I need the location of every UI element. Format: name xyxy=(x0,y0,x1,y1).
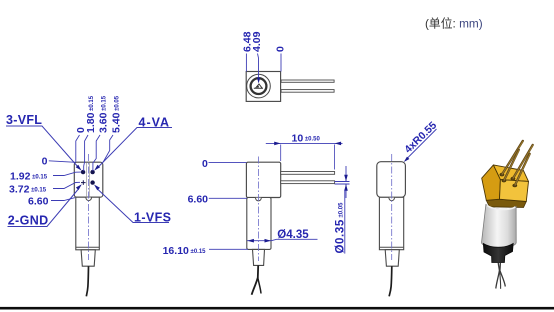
svg-text:1.92 ±0.15: 1.92 ±0.15 xyxy=(10,171,48,183)
arrowhead D0.35 up xyxy=(344,184,348,191)
pin hole B xyxy=(511,177,516,181)
leader 4.09 xyxy=(258,54,259,80)
wire side view (forked) xyxy=(252,265,259,294)
chip mark xyxy=(254,84,263,88)
bottom wires xyxy=(496,263,500,289)
pin top view upper xyxy=(281,80,334,82)
window dark ring xyxy=(251,78,267,94)
gold pin A xyxy=(502,141,523,175)
arrowhead 10 left xyxy=(274,142,281,146)
leader 2-GND xyxy=(8,190,79,227)
wire right view xyxy=(389,266,392,296)
pin dot 3 (top-left) xyxy=(81,170,85,174)
band line front view xyxy=(76,246,99,248)
pin hole D xyxy=(512,184,517,188)
leader 0 side xyxy=(209,161,247,163)
svg-text:10 ±0.50: 10 ±0.50 xyxy=(292,133,321,145)
bump notch right view xyxy=(389,198,395,201)
leader 3-VFL xyxy=(6,126,79,168)
arrowhead 3-VFL xyxy=(76,165,82,171)
pin side view upper xyxy=(281,172,335,175)
leader 1.92 xyxy=(53,172,81,175)
arrowhead 4-VA xyxy=(94,165,100,171)
inner silhouette lines front head xyxy=(87,163,90,197)
arrowhead 2-GND xyxy=(76,184,82,190)
dimension line D4.35 xyxy=(247,240,271,242)
shelf D4.35 xyxy=(271,239,317,240)
svg-text:4xR0.55: 4xR0.55 xyxy=(402,119,439,155)
band line right view xyxy=(380,246,404,248)
leader 1-VFS xyxy=(98,190,169,223)
centerline right view xyxy=(391,154,393,260)
bump notch front view xyxy=(86,198,92,201)
pin hole A xyxy=(500,173,505,177)
body right view xyxy=(379,197,403,249)
leader 6.60 side xyxy=(209,197,247,199)
arrowhead D4.35 left xyxy=(247,239,254,243)
cylinder top highlight xyxy=(487,205,515,209)
leader 0 top xyxy=(76,135,80,162)
svg-text:3.72 ±0.15: 3.72 ±0.15 xyxy=(9,184,47,196)
cube left face xyxy=(482,165,501,200)
svg-text:3-VFL: 3-VFL xyxy=(6,113,42,127)
step tip right view xyxy=(385,250,399,267)
leader 6.48 xyxy=(245,54,247,72)
body side view xyxy=(247,198,271,250)
extension ticks D0.35 xyxy=(335,182,350,185)
black section xyxy=(483,244,513,263)
arrowhead D0.35 down xyxy=(344,175,348,182)
svg-text:0: 0 xyxy=(202,158,208,170)
svg-text:6.60: 6.60 xyxy=(28,196,49,208)
svg-text:(单位: mm): (单位: mm) xyxy=(425,17,483,31)
gold pin D xyxy=(515,154,530,186)
body cylinder front view xyxy=(76,197,100,250)
leader 16.10 xyxy=(209,248,248,250)
dimension line D0.35 lower xyxy=(345,184,347,198)
arrowhead 4xR0.55 xyxy=(404,157,410,162)
bump notch side view xyxy=(256,198,262,201)
arrowhead 10 right xyxy=(335,142,342,146)
svg-text:0: 0 xyxy=(42,156,48,168)
centerline front view xyxy=(87,154,89,260)
svg-text:3.60 ±0.15: 3.60 ±0.15 xyxy=(98,95,110,133)
can square top view xyxy=(246,72,280,102)
svg-text:5.40 ±0.05: 5.40 ±0.05 xyxy=(111,95,123,133)
wire front view xyxy=(86,266,88,296)
window outer circle xyxy=(247,74,271,98)
head (rear of can) front view xyxy=(74,162,103,197)
svg-text:4.09: 4.09 xyxy=(251,31,263,52)
arrowhead D4.35 right xyxy=(265,239,272,243)
pin dot 4 (top-right) xyxy=(90,170,94,174)
extension line 10 left xyxy=(280,145,282,162)
cube bottom strip xyxy=(486,199,526,207)
svg-text:6.60: 6.60 xyxy=(188,194,209,206)
leader 0 left xyxy=(49,161,76,163)
leader 1.80 xyxy=(84,135,88,171)
arrowhead 1-VFS xyxy=(94,185,100,191)
leader 4-VA xyxy=(98,128,172,168)
leader 5.40 xyxy=(103,135,113,162)
leader 6.60 front xyxy=(51,198,75,201)
pin side view lower xyxy=(281,181,335,184)
pin cross 2 (bottom-left) xyxy=(81,180,86,185)
head side view xyxy=(246,162,280,197)
dimension line D0.35 upper xyxy=(345,166,347,181)
svg-text:1.80 ±0.15: 1.80 ±0.15 xyxy=(85,95,97,133)
step tip side view xyxy=(253,249,265,265)
gold pin B xyxy=(513,145,533,179)
pin dot 1 (bottom-right) xyxy=(90,180,94,184)
head right view xyxy=(377,162,406,198)
cube front face xyxy=(500,180,529,202)
pin hole C xyxy=(502,179,507,183)
step tip front view xyxy=(81,250,95,266)
extension line 10 right xyxy=(334,145,336,170)
white cylinder xyxy=(482,205,517,248)
leader 0 top view xyxy=(280,54,282,72)
svg-text:0: 0 xyxy=(274,46,286,52)
svg-text:16.10 ±0.15: 16.10 ±0.15 xyxy=(163,245,207,257)
gold pin C xyxy=(504,150,519,181)
pin top view lower xyxy=(281,90,334,93)
bottom border bar xyxy=(0,307,554,310)
centerline side view xyxy=(257,157,259,262)
leader 3.72 xyxy=(53,182,80,188)
arrowhead 4.09 xyxy=(257,78,260,84)
svg-text:2-GND: 2-GND xyxy=(8,214,49,228)
leader 3.60 xyxy=(93,135,100,171)
leader 4xR0.55 xyxy=(407,129,437,159)
cube top face xyxy=(493,165,528,182)
dimension line 10 xyxy=(266,142,343,144)
